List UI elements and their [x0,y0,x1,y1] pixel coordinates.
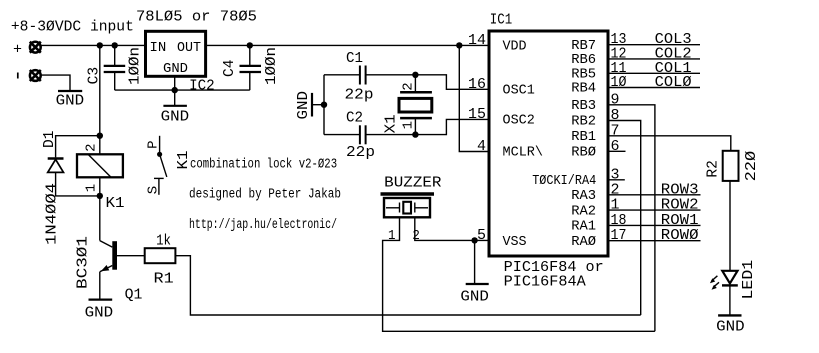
svg-text:K1: K1 [106,195,125,212]
pin number 12 and wire / net COL2 [608,45,700,62]
wire base to R1 [117,255,145,257]
svg-text:GND: GND [163,61,188,77]
switch K1 contact (P/S annotation) [145,136,192,195]
svg-text:2: 2 [400,82,416,90]
svg-text:14: 14 [468,32,486,49]
wire R1 to RB2 (bottom route) [175,256,640,315]
svg-text:X1: X1 [383,114,400,133]
svg-text:BUZZER: BUZZER [384,175,441,192]
relay coil K1 [77,136,125,212]
pin number 13 and wire / net COL3 [608,31,700,48]
svg-text:TØCKI/RA4: TØCKI/RA4 [532,173,596,189]
svg-text:6: 6 [611,138,620,155]
pin number 18 and wire / net ROW1 [608,212,701,229]
wire top rail + terminal to regulator IN [40,44,145,46]
node junction top rail to relay branch [97,42,103,48]
svg-text:2: 2 [83,143,99,151]
wire ground rail C3 to C4 [115,89,250,91]
capacitor C2 [324,109,415,161]
pin number 9 and wire RB3 to buzzer [608,91,655,331]
svg-text:RBØ: RBØ [571,145,596,161]
svg-text:designed by Peter Jakab: designed by Peter Jakab [189,187,341,202]
diode D1 1N4004 [41,131,63,246]
node junction VSS / buzzer / ground [471,237,477,243]
svg-text:RB2: RB2 [571,114,596,130]
svg-text:1: 1 [400,121,416,129]
svg-text:RA2: RA2 [571,203,596,219]
svg-text:GND: GND [460,288,489,305]
svg-text:1ØØn: 1ØØn [263,47,280,85]
svg-text:2: 2 [412,228,420,244]
svg-text:RAØ: RAØ [571,234,596,250]
svg-text:+8-3ØVDC input: +8-3ØVDC input [11,19,134,36]
terminal - (minus input) [18,70,41,81]
svg-text:VDD: VDD [503,39,527,55]
svg-text:IN: IN [150,40,167,56]
wire minus terminal to ground [40,75,70,91]
svg-text:RA3: RA3 [571,188,596,204]
op-amp — actually microcontroller IC1 PIC16F84 box [489,12,608,291]
capacitor C3 [86,45,144,90]
wire LED1 to ground [729,285,731,315]
svg-text:22p: 22p [345,86,374,103]
svg-text:OSC1: OSC1 [503,83,535,99]
pin number 11 and wire / net COL1 [608,60,700,77]
svg-text:IC2: IC2 [189,78,215,95]
svg-text:P: P [145,140,161,148]
pin number 6 and stub RB0 [608,138,626,155]
svg-text:RB4: RB4 [571,81,596,97]
svg-text:COLØ: COLØ [655,74,692,91]
wire R2 to LED1 [729,181,731,271]
node junction C2 / crystal pin1 [412,131,418,137]
wire D1 top branch [56,136,100,158]
ground GND6 (LED) [716,315,745,335]
svg-text:1k: 1k [156,233,171,250]
node junction OUT / C4 [247,42,253,48]
ground GND3 (oscillator, left-facing) [295,91,324,120]
node junction C1 / crystal pin2 [412,72,418,78]
pin number 2 (buzzer) and wire to VSS [412,217,489,244]
svg-text:BC3Ø1: BC3Ø1 [75,236,92,289]
ground GND5 (VSS) [460,240,489,305]
svg-text:RB1: RB1 [571,129,596,145]
pin number 17 and wire / net ROW0 [608,227,701,244]
svg-text:16: 16 [468,76,486,93]
resistor R1 1k [145,233,176,288]
terminal + (plus input) [13,42,41,59]
svg-text:R2: R2 [705,160,722,178]
wire top rail regulator OUT to IC pin14 [206,44,489,46]
pin number 2 and wire / net ROW3 [608,181,701,198]
svg-text:LED1: LED1 [740,260,757,300]
capacitor C1 [324,50,415,104]
svg-text:MCLR\: MCLR\ [503,145,544,161]
svg-text:RB3: RB3 [571,98,596,114]
wire MCLR tie to VDD [459,45,489,151]
svg-text:GND: GND [716,318,745,335]
node junction regulator GND / ground rail [172,87,178,93]
node junction relay pin2 / D1 cathode [97,133,103,139]
svg-text:4: 4 [477,138,486,155]
node junction osc ground tap [321,102,327,108]
wire crystal pin2 to OSC1 pin16 [415,75,489,90]
svg-text:7: 7 [611,122,620,139]
svg-text:17: 17 [611,227,627,244]
svg-text:C4: C4 [221,60,238,78]
pin number 1 and wire / net ROW2 [608,197,701,214]
pin number 1 (buzzer) and wire to RB3 route [383,217,655,331]
svg-text:22Ø: 22Ø [743,151,760,182]
svg-text:RA1: RA1 [571,219,596,235]
svg-text:+: + [13,42,22,59]
buzzer BUZZER [381,175,442,218]
svg-text:22p: 22p [346,144,375,161]
LED LED1 [710,260,757,300]
svg-text:GND: GND [295,91,312,120]
svg-text:VSS: VSS [503,234,527,250]
node junction top rail to C3 [112,42,118,48]
svg-text:C2: C2 [346,109,363,126]
pin number 10 and wire / net COL0 [608,74,700,91]
svg-text:1Ø: 1Ø [611,74,627,91]
wire crystal pin1 to OSC2 pin15 [415,119,489,134]
svg-text:PIC16F84A: PIC16F84A [504,273,586,290]
wire D1 bottom branch [56,172,100,196]
svg-text:GND: GND [56,93,85,110]
svg-text:OSC2: OSC2 [503,113,535,129]
pin number 3 and stub RA4 [608,166,625,183]
voltage regulator IC2 box 78L05 [136,8,257,94]
svg-text:1ØØn: 1ØØn [127,47,144,85]
transistor Q1 BC301 [75,196,143,304]
svg-text:Q1: Q1 [125,287,143,304]
pin number 7 and wire RB1 to R2 [608,122,731,151]
svg-text:IC1: IC1 [490,12,512,29]
svg-text:OUT: OUT [177,40,201,56]
svg-text:R1: R1 [154,271,174,288]
node junction VDD rail / MCLR branch [456,42,462,48]
svg-text:combination lock v2-Ø23: combination lock v2-Ø23 [190,157,337,172]
svg-text:78LØ5 or 78Ø5: 78LØ5 or 78Ø5 [136,8,257,25]
wire +V rail down to relay [99,45,101,135]
capacitor C4 [221,45,280,90]
ground GND1 (input minus) [56,91,85,110]
svg-text:C1: C1 [346,50,363,67]
svg-text:1: 1 [83,184,99,192]
wire osc left vertical C1 to C2 [323,75,325,135]
svg-text:9: 9 [611,91,620,108]
svg-text:1: 1 [388,228,396,244]
pin number 8 and wire RB2 to R1 [608,107,641,315]
svg-text:GND: GND [161,108,190,125]
svg-text:S: S [145,186,161,194]
ground GND4 (emitter) [85,300,114,322]
node junction relay pin1 / D1 / Q1 collector [97,193,103,199]
svg-text:http://jap.hu/electronic/: http://jap.hu/electronic/ [189,218,337,233]
svg-text:1N4ØØ4: 1N4ØØ4 [43,183,60,245]
svg-text:D1: D1 [41,131,58,149]
resistor R2 [705,151,760,182]
ground GND2 (regulator) [161,90,190,125]
svg-text:GND: GND [85,304,114,321]
wire regulator GND pin down [174,76,176,90]
crystal X1 [383,75,432,135]
svg-text:15: 15 [468,106,486,123]
svg-text:5: 5 [477,227,486,244]
svg-text:ROWØ: ROWØ [661,227,699,244]
